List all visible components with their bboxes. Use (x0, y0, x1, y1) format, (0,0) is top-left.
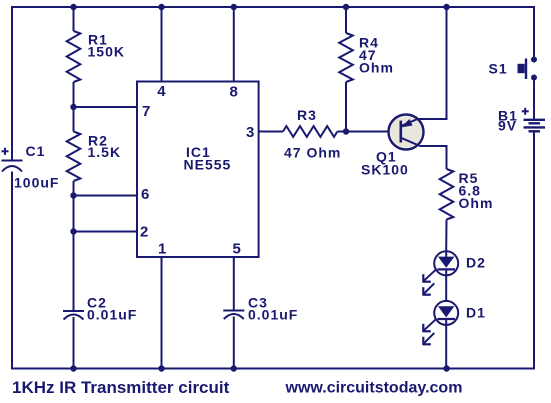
wire collector to R5 (420, 146, 447, 169)
node pin1 ground (158, 365, 164, 371)
wire base node to transistor (346, 131, 400, 133)
D1 light arrow b (423, 333, 434, 344)
svg-text:www.circuitstoday.com: www.circuitstoday.com (285, 380, 463, 397)
svg-text:1.5K: 1.5K (88, 144, 122, 160)
svg-text:0.01uF: 0.01uF (248, 306, 298, 322)
resistor R1 (67, 7, 81, 107)
node LED ground (443, 365, 449, 371)
D2 light arrow b (423, 283, 434, 294)
wire emitter to top rail (418, 6, 447, 119)
wire pin 3 out (259, 131, 283, 133)
svg-text:SK100: SK100 (361, 162, 409, 178)
wire battery to ground rail (533, 132, 535, 370)
resistor R5 (440, 169, 454, 251)
svg-text:R3: R3 (297, 107, 317, 123)
LED D2 (423, 251, 459, 301)
svg-text:1KHz IR Transmitter circuit: 1KHz IR Transmitter circuit (12, 378, 230, 397)
resistor R4 (339, 7, 353, 132)
wire left rail upper (to C1) (11, 6, 13, 161)
D1 light arrow a (423, 319, 435, 331)
battery B1 (524, 120, 546, 132)
wire pin 8 (233, 7, 235, 82)
node C2 ground (70, 365, 76, 371)
node R1 top (70, 4, 76, 10)
svg-text:D2: D2 (466, 254, 486, 270)
node base R3/R4 (343, 128, 349, 134)
svg-text:0.01uF: 0.01uF (87, 306, 137, 322)
svg-text:4: 4 (157, 83, 166, 100)
wire pin2 node (74, 231, 138, 233)
svg-text:6: 6 (141, 186, 149, 203)
svg-text:5: 5 (233, 241, 241, 258)
svg-text:3: 3 (246, 124, 254, 141)
IC op-amp/timer U1 box NE555 (137, 82, 259, 258)
wire top +9V rail (11, 6, 534, 8)
switch S1 (518, 57, 538, 81)
capacitor C3 (223, 311, 244, 370)
wire pin 1 to ground (161, 257, 163, 369)
wire bottom ground rail (11, 368, 535, 370)
node pin6 junction (70, 192, 76, 198)
wire pin 4 (161, 7, 163, 82)
node pin4 top (158, 4, 164, 10)
svg-text:9V: 9V (498, 118, 517, 134)
D2 light arrow a (423, 270, 435, 282)
svg-text:Ohm: Ohm (359, 60, 394, 76)
wire left rail lower (C1 to ground) (11, 172, 13, 370)
LED D1 (423, 301, 459, 369)
svg-text:NE555: NE555 (184, 157, 232, 173)
svg-text:2: 2 (140, 224, 148, 241)
svg-text:Ohm: Ohm (459, 195, 494, 211)
svg-text:S1: S1 (489, 61, 508, 77)
node pin8 top (231, 4, 237, 10)
wire pin6 to R2 bottom (74, 195, 138, 197)
transistor Q1 SK100 (389, 115, 424, 150)
svg-text:8: 8 (230, 84, 238, 101)
capacitor C1 (2, 148, 23, 172)
svg-text:47 Ohm: 47 Ohm (284, 144, 341, 160)
svg-text:7: 7 (142, 103, 150, 120)
node C3 ground (231, 365, 237, 371)
node pin7 junction (70, 104, 76, 110)
resistor R2 (67, 107, 81, 232)
wire pin 5 to C3 (233, 257, 235, 311)
battery plus sign (522, 108, 529, 115)
wire pin7 to R1/R2 junction (74, 106, 138, 108)
resistor R3 (283, 126, 346, 137)
svg-text:C1: C1 (26, 143, 46, 159)
svg-text:D1: D1 (466, 305, 486, 321)
node R4 top (343, 4, 349, 10)
svg-text:1: 1 (158, 241, 166, 258)
wire S1 to battery (533, 78, 535, 120)
wire right rail top (to S1) (533, 6, 535, 59)
node emitter top (443, 4, 449, 10)
svg-text:100uF: 100uF (14, 175, 59, 191)
capacitor C2 (63, 232, 84, 370)
node pin2 junction (70, 228, 76, 234)
svg-text:150K: 150K (88, 44, 125, 60)
